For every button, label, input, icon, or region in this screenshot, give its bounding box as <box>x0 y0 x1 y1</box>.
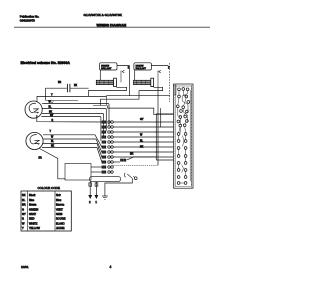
colour code table <box>21 191 71 231</box>
svg-text:BK: BK <box>22 193 26 197</box>
svg-text:WHITE: WHITE <box>29 221 38 225</box>
motor M1 wire R <box>37 116 102 122</box>
colour code table rows <box>22 193 66 230</box>
fluorescent tube LP2 <box>134 78 154 86</box>
wire row1 to PCB <box>113 121 173 123</box>
node motor M1 bottom junction <box>36 115 38 117</box>
capacitor C1 <box>46 82 89 92</box>
scheme title <box>21 61 71 65</box>
svg-text:BALLAST: BALLAST <box>136 67 147 70</box>
svg-text:Black: Black <box>29 193 36 197</box>
svg-text:GY: GY <box>50 115 54 117</box>
svg-text:GY: GY <box>22 212 26 216</box>
wire row4 to PCB <box>113 136 173 138</box>
svg-text:GRIS: GRIS <box>56 212 63 216</box>
wire capacitor to enclosure <box>45 88 47 100</box>
terminal bar <box>90 176 121 181</box>
wire mesh right fan <box>113 122 173 162</box>
wire row7 to PCB <box>113 151 173 153</box>
starter arrow S2 <box>158 70 161 87</box>
svg-text:Brown: Brown <box>29 203 37 207</box>
svg-text:W: W <box>22 221 25 225</box>
wire ballast U1 left lead <box>99 70 101 80</box>
PCB traces <box>178 90 190 183</box>
svg-text:W: W <box>51 136 54 138</box>
motor M1 enclosure line with arrow <box>46 100 79 103</box>
svg-text:BL: BL <box>22 198 26 202</box>
motor M2 <box>26 132 43 149</box>
svg-text:Y: Y <box>22 226 24 230</box>
wire terminal drop 1 <box>95 182 98 204</box>
motor M2 wire BL <box>43 141 102 157</box>
wire row8 to PCB <box>113 156 173 158</box>
svg-text:COLOUR CODE: COLOUR CODE <box>38 186 60 190</box>
connector row 5 <box>102 141 113 144</box>
PCB board <box>174 84 194 188</box>
wire terminal drop 2 <box>89 182 92 204</box>
PCB pads upper <box>176 88 189 127</box>
connector row 10 <box>102 166 113 169</box>
motor M2 wire Y <box>43 131 102 147</box>
svg-text:BK: BK <box>51 145 55 147</box>
hood enclosure dashed edge <box>169 63 171 102</box>
wire mesh upper <box>108 105 174 127</box>
svg-text:GY: GY <box>140 118 144 121</box>
motor M2 wire BK <box>42 145 102 162</box>
lamp bay bottom boundary <box>93 96 170 106</box>
svg-text:BK: BK <box>74 85 78 87</box>
PCB pads lower right column <box>184 133 187 185</box>
svg-text:Marron: Marron <box>56 203 65 207</box>
svg-text:GREEN: GREEN <box>29 207 38 211</box>
connector row 7 <box>102 151 113 154</box>
svg-text:G: G <box>22 207 24 211</box>
motor M2 wire W <box>43 136 102 152</box>
svg-text:YELLOW: YELLOW <box>29 226 40 230</box>
footer date <box>21 265 29 269</box>
svg-text:BLANC: BLANC <box>56 221 65 225</box>
wire labels right mesh <box>130 118 144 156</box>
svg-text:Blue: Blue <box>29 198 35 202</box>
svg-text:BALLAST: BALLAST <box>101 67 112 70</box>
wire ballast U1 to node <box>117 66 129 96</box>
svg-text:BL: BL <box>51 141 55 143</box>
connector block rows <box>102 121 113 174</box>
wire ballast U2 left lead <box>134 70 136 80</box>
svg-text:2: 2 <box>89 200 91 204</box>
svg-text:Bleu: Bleu <box>56 198 62 202</box>
wire tube LP1 leads <box>89 87 127 96</box>
wire row5 to PCB <box>113 141 173 143</box>
wire box stubs <box>91 167 102 172</box>
motor M1 wire Y (top) <box>37 95 107 102</box>
svg-text:Noir: Noir <box>56 193 61 197</box>
ground drop <box>102 178 132 199</box>
wire row2 to PCB <box>113 126 160 128</box>
motor M2 wire BR <box>39 149 66 179</box>
header wiring diagram title <box>97 23 127 27</box>
motor M1 <box>25 101 42 118</box>
connector row 6 <box>102 146 113 149</box>
ballast U2 label box <box>134 63 152 70</box>
wire ballast U2 to node <box>151 66 169 69</box>
svg-text:BK: BK <box>49 112 53 114</box>
bus vertical with junctions <box>156 114 174 161</box>
wire tube LP2 leads <box>101 87 163 165</box>
svg-text:BR: BR <box>130 153 134 156</box>
wire row9 diag connector <box>113 161 120 163</box>
connector row 9 <box>102 161 113 164</box>
svg-text:ROUGE: ROUGE <box>56 217 66 221</box>
header rule <box>14 26 210 28</box>
svg-text:B50/5W: B50/5W <box>136 65 145 67</box>
motor M1 wire BK <box>42 112 104 136</box>
header publication label <box>20 15 40 23</box>
svg-text:VERT: VERT <box>56 207 63 211</box>
svg-text:Y: Y <box>50 131 52 133</box>
svg-text:G96239970: G96239970 <box>20 19 36 23</box>
header model numbers <box>84 13 122 17</box>
svg-text:JAUNE: JAUNE <box>56 226 65 230</box>
svg-text:B50/5W: B50/5W <box>101 65 110 67</box>
wire BR lower run <box>64 179 66 180</box>
wire dashed lower run <box>113 164 158 166</box>
colour code table title <box>38 186 60 190</box>
lamp switch S1 <box>124 173 137 180</box>
motor M1 wire W <box>42 102 109 126</box>
starter arrow S1 <box>121 70 124 82</box>
wire row3 to PCB <box>113 131 173 133</box>
connector row 8 <box>102 156 113 159</box>
svg-text:BK: BK <box>140 146 144 149</box>
wire row6 to PCB <box>113 146 173 148</box>
svg-text:1: 1 <box>95 200 97 204</box>
svg-text:4: 4 <box>110 265 112 269</box>
svg-text:10/01: 10/01 <box>21 265 29 269</box>
motor M1 wire BL <box>42 107 106 131</box>
connector row 1 <box>102 121 113 124</box>
connector row 3 <box>102 131 113 134</box>
fluorescent tube LP1 <box>96 78 116 86</box>
svg-text:GLHV36TXK & GLHV36TSK: GLHV36TXK & GLHV36TSK <box>84 13 122 17</box>
junction block box <box>65 164 91 181</box>
svg-text:R: R <box>22 217 24 221</box>
motor M1 wire GY <box>41 115 101 141</box>
svg-text:BR: BR <box>22 203 26 207</box>
svg-text:W: W <box>140 134 143 137</box>
svg-text:RED: RED <box>29 217 35 221</box>
footer page number <box>110 265 112 269</box>
connector row 11 <box>102 171 113 174</box>
svg-text:BR: BR <box>39 157 43 159</box>
svg-text:BR: BR <box>58 82 62 84</box>
connector row 2 <box>102 126 113 129</box>
svg-text:GRAY: GRAY <box>29 212 36 216</box>
inline connector X1 <box>121 157 157 161</box>
connector row 4 <box>102 136 113 139</box>
PCB pads lower left column <box>177 133 180 185</box>
ballast U1 label box <box>100 63 118 70</box>
svg-text:Electrical scheme No. 52996A: Electrical scheme No. 52996A <box>21 61 71 65</box>
